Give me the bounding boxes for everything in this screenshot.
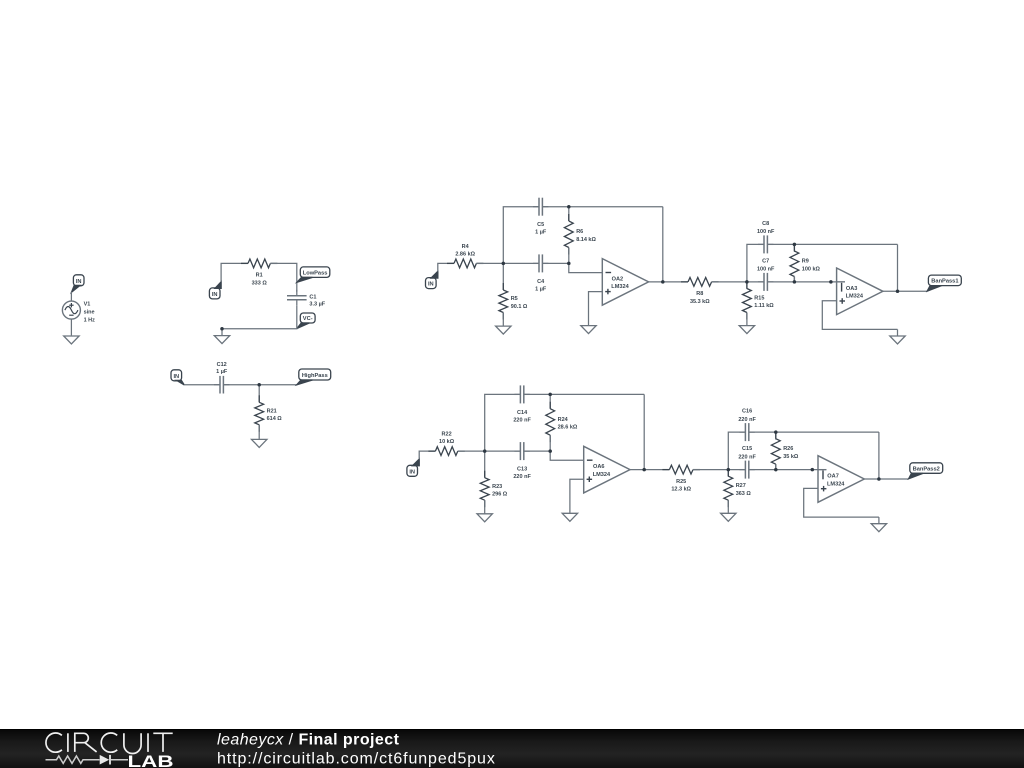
wire — [570, 479, 584, 512]
R6 label — [576, 229, 583, 235]
R8 value label — [690, 299, 710, 305]
wire — [542, 262, 568, 264]
resistor R4 — [447, 259, 483, 268]
wire — [897, 244, 899, 291]
wire — [822, 301, 897, 330]
svg-text:R21: R21 — [267, 408, 277, 414]
svg-text:LM324: LM324 — [611, 284, 629, 290]
svg-text:C12: C12 — [217, 362, 227, 368]
R9 value label — [802, 266, 821, 272]
wire — [484, 451, 486, 478]
svg-text:R23: R23 — [492, 484, 502, 490]
R1 value label — [252, 280, 268, 286]
C12 value label — [216, 369, 228, 375]
R15 value label — [754, 303, 774, 309]
net flag BanPass2 — [909, 463, 943, 479]
junction — [257, 383, 261, 387]
svg-text:OA7: OA7 — [827, 474, 839, 480]
OA2 part number label — [611, 284, 629, 290]
resistor R27 — [724, 469, 733, 507]
wire — [568, 248, 570, 264]
R23 label — [492, 484, 502, 490]
wire — [649, 281, 688, 283]
junction — [829, 280, 833, 284]
R4 value label — [455, 251, 475, 257]
net flag LowPass — [297, 267, 330, 283]
wire — [419, 451, 435, 459]
wire — [749, 469, 827, 471]
capacitor C16 — [739, 423, 754, 441]
C13 value label — [513, 474, 531, 480]
voltage source V1 — [62, 292, 80, 336]
capacitor C4 — [533, 254, 548, 272]
junction — [745, 280, 749, 284]
svg-text:IN: IN — [173, 374, 179, 380]
svg-text:R27: R27 — [736, 483, 746, 489]
ground — [581, 325, 596, 334]
resistor R23 — [480, 471, 489, 508]
svg-text:296 Ω: 296 Ω — [492, 492, 508, 498]
wire — [746, 313, 748, 326]
R6 value label — [576, 237, 596, 243]
wire — [767, 243, 897, 245]
C7 value label — [757, 267, 775, 273]
OA6 label — [593, 464, 605, 470]
svg-text:333 Ω: 333 Ω — [252, 280, 268, 286]
V1 type label — [84, 309, 95, 315]
ground — [739, 325, 754, 334]
svg-text:HighPass: HighPass — [302, 373, 328, 379]
wire — [549, 394, 551, 408]
svg-text:R26: R26 — [783, 446, 793, 452]
wire — [549, 435, 551, 451]
junction — [793, 280, 797, 284]
svg-text:C1: C1 — [309, 294, 316, 300]
wire — [775, 464, 777, 469]
svg-text:35.3 kΩ: 35.3 kΩ — [690, 299, 710, 305]
capacitor C13 — [514, 442, 529, 460]
R24 label — [558, 417, 569, 423]
C15 value label — [738, 454, 756, 460]
junction — [661, 280, 665, 284]
wire — [727, 470, 729, 477]
op-amp OA6 — [584, 446, 630, 493]
svg-text:R5: R5 — [511, 296, 518, 302]
wire — [749, 431, 879, 433]
svg-text:LM324: LM324 — [593, 472, 611, 478]
junction — [727, 468, 731, 472]
wire — [775, 432, 777, 440]
wire — [476, 262, 539, 264]
svg-text:R8: R8 — [696, 291, 703, 297]
junction — [877, 477, 881, 481]
junction — [896, 290, 900, 294]
svg-text:1 µF: 1 µF — [216, 369, 228, 375]
net flag IN — [209, 282, 221, 299]
wire — [258, 425, 260, 439]
R26 label — [783, 446, 793, 452]
junction — [793, 243, 797, 247]
capacitor C8 — [758, 235, 773, 253]
wire — [438, 263, 454, 271]
CircuitLab logo — [42, 729, 562, 768]
resistor R6 — [564, 214, 573, 255]
junction — [567, 262, 571, 266]
junction — [483, 449, 487, 453]
C13 label — [517, 467, 527, 473]
R25 value label — [671, 487, 691, 493]
wire — [221, 263, 248, 281]
op-amp OA3 — [837, 268, 883, 315]
svg-text:LowPass: LowPass — [303, 270, 328, 276]
svg-text:http://circuitlab.com/ct6funpe: http://circuitlab.com/ct6funped5pux — [217, 751, 496, 768]
svg-text:2.86 kΩ: 2.86 kΩ — [455, 251, 475, 257]
svg-text:R9: R9 — [802, 259, 809, 265]
junction — [220, 327, 224, 331]
ground — [214, 329, 229, 344]
net flag IN — [171, 370, 184, 385]
wire — [747, 244, 764, 282]
svg-text:R25: R25 — [676, 479, 686, 485]
C7 label — [762, 258, 769, 264]
C5 value label — [535, 230, 547, 236]
capacitor C7 — [758, 273, 773, 291]
ground — [721, 513, 736, 522]
svg-text:220 nF: 220 nF — [513, 417, 531, 423]
wire — [502, 313, 504, 326]
op-amp OA2 — [602, 259, 648, 306]
resistor R21 — [255, 395, 264, 432]
R9 label — [802, 259, 809, 265]
OA7 part number label — [827, 481, 845, 487]
V1 value label — [84, 317, 96, 323]
R22 label — [442, 432, 452, 438]
wire — [804, 488, 879, 517]
svg-text:614 Ω: 614 Ω — [267, 416, 283, 422]
R1 label — [256, 273, 263, 279]
junction — [548, 393, 552, 397]
wire — [568, 207, 570, 221]
svg-text:R4: R4 — [462, 244, 470, 250]
OA6 part number label — [593, 472, 611, 478]
C1 label — [309, 294, 316, 300]
R4 label — [462, 244, 470, 250]
wire — [458, 450, 521, 452]
svg-text:220 nF: 220 nF — [738, 417, 756, 423]
C8 label — [762, 221, 769, 227]
svg-text:C7: C7 — [762, 258, 769, 264]
wire — [643, 394, 645, 469]
capacitor C14 — [514, 385, 529, 403]
ground — [252, 439, 267, 448]
C8 value label — [757, 229, 775, 235]
svg-text:28.6 kΩ: 28.6 kΩ — [558, 425, 578, 431]
svg-text:8.14 kΩ: 8.14 kΩ — [576, 237, 596, 243]
wire — [878, 432, 880, 479]
wire — [746, 282, 748, 289]
wire — [864, 478, 908, 480]
wire — [712, 281, 764, 283]
C1 value label — [309, 301, 325, 307]
junction — [774, 468, 778, 472]
wire — [184, 384, 220, 386]
junction — [548, 449, 552, 453]
op-amp OA7 — [818, 456, 864, 503]
svg-text:35 kΩ: 35 kΩ — [783, 454, 799, 460]
svg-text:R24: R24 — [558, 417, 569, 423]
resistor R24 — [546, 402, 555, 443]
OA2 label — [612, 276, 624, 282]
svg-text:C5: C5 — [537, 222, 544, 228]
R15 label — [754, 295, 764, 301]
R24 value label — [558, 425, 578, 431]
ground — [64, 335, 79, 344]
junction — [502, 262, 506, 266]
wire — [727, 500, 729, 513]
svg-text:C8: C8 — [762, 221, 769, 227]
R22 value label — [439, 439, 455, 445]
svg-text:100 kΩ: 100 kΩ — [802, 266, 821, 272]
OA3 label — [846, 286, 858, 292]
C15 label — [742, 446, 752, 452]
wire — [542, 206, 662, 208]
R25 label — [676, 479, 686, 485]
C12 label — [217, 362, 227, 368]
svg-text:220 nF: 220 nF — [738, 454, 756, 460]
C5 label — [537, 222, 544, 228]
net flag IN — [71, 275, 84, 293]
wire — [630, 469, 669, 471]
svg-text:LAB: LAB — [128, 752, 174, 768]
svg-text:VC-: VC- — [303, 316, 313, 322]
wire — [550, 451, 584, 460]
junction — [811, 468, 815, 472]
resistor R26 — [771, 432, 780, 472]
wire — [767, 281, 845, 283]
wire — [793, 277, 795, 282]
svg-text:BanPass1: BanPass1 — [931, 279, 958, 285]
OA3 part number label — [846, 294, 864, 300]
svg-text:OA2: OA2 — [612, 276, 624, 282]
wire — [270, 263, 296, 291]
svg-text:363 Ω: 363 Ω — [736, 491, 752, 497]
resistor R15 — [743, 282, 752, 320]
svg-text:IN: IN — [428, 282, 434, 288]
wire — [662, 207, 664, 282]
C14 value label — [513, 417, 531, 423]
svg-text:IN: IN — [212, 292, 218, 298]
C16 label — [742, 409, 752, 415]
svg-text:C13: C13 — [517, 467, 527, 473]
R8 label — [696, 291, 703, 297]
svg-text:R15: R15 — [754, 295, 764, 301]
V1 label — [84, 302, 91, 308]
svg-text:220 nF: 220 nF — [513, 474, 531, 480]
svg-text:12.3 kΩ: 12.3 kΩ — [671, 487, 691, 493]
svg-text:leaheycx / Final project: leaheycx / Final project — [217, 732, 400, 749]
R5 value label — [511, 304, 528, 310]
capacitor C15 — [739, 461, 754, 479]
wire — [524, 450, 550, 452]
net flag HighPass — [297, 369, 331, 385]
capacitor C5 — [533, 198, 548, 216]
wire — [793, 244, 795, 252]
svg-text:100 nF: 100 nF — [757, 229, 775, 235]
ground — [871, 517, 886, 532]
svg-text:1 µF: 1 µF — [535, 286, 547, 292]
ground — [890, 329, 905, 344]
svg-text:R22: R22 — [442, 432, 452, 438]
resistor R8 — [681, 278, 719, 287]
wire — [728, 432, 745, 470]
R21 label — [267, 408, 277, 414]
wire — [883, 290, 927, 292]
R21 value label — [267, 416, 283, 422]
svg-text:OA6: OA6 — [593, 464, 605, 470]
svg-text:C14: C14 — [517, 410, 528, 416]
R27 value label — [736, 491, 752, 497]
wire — [502, 263, 504, 290]
junction — [642, 468, 646, 472]
C4 value label — [535, 286, 547, 292]
capacitor C1 — [287, 290, 307, 306]
wire — [485, 394, 521, 451]
net flag IN — [426, 271, 438, 288]
svg-text:sine: sine — [84, 309, 95, 315]
net flag VC- — [297, 313, 315, 329]
ground — [562, 513, 577, 522]
C14 label — [517, 410, 528, 416]
R5 label — [511, 296, 518, 302]
svg-text:C4: C4 — [537, 279, 545, 285]
wire — [484, 500, 486, 513]
svg-text:LM324: LM324 — [846, 294, 864, 300]
svg-text:90.1 Ω: 90.1 Ω — [511, 304, 528, 310]
svg-text:IN: IN — [409, 469, 415, 475]
svg-text:LM324: LM324 — [827, 481, 845, 487]
resistor R9 — [790, 244, 799, 284]
wire — [258, 385, 260, 403]
svg-text:R6: R6 — [576, 229, 583, 235]
ground — [496, 326, 511, 335]
svg-text:3.3 µF: 3.3 µF — [309, 301, 325, 307]
wire — [503, 207, 539, 264]
junction — [774, 430, 778, 434]
ground — [477, 513, 492, 522]
svg-text:10 kΩ: 10 kΩ — [439, 439, 455, 445]
svg-text:BanPass2: BanPass2 — [913, 466, 940, 472]
net flag BanPass1 — [927, 275, 961, 291]
wire — [223, 384, 297, 386]
resistor R25 — [662, 465, 700, 474]
svg-text:IN: IN — [76, 279, 82, 285]
wire — [589, 292, 603, 325]
junction — [567, 205, 571, 209]
R27 label — [736, 483, 746, 489]
svg-text:R1: R1 — [256, 273, 263, 279]
OA7 label — [827, 474, 839, 480]
wire — [569, 263, 603, 272]
svg-text:C15: C15 — [742, 446, 752, 452]
svg-text:OA3: OA3 — [846, 286, 858, 292]
resistor R5 — [499, 283, 508, 320]
capacitor C12 — [214, 376, 229, 394]
R23 value label — [492, 492, 508, 498]
wire — [524, 393, 644, 395]
svg-text:100 nF: 100 nF — [757, 267, 775, 273]
svg-text:C16: C16 — [742, 409, 752, 415]
resistor R22 — [428, 447, 464, 456]
C4 label — [537, 279, 545, 285]
R26 value label — [783, 454, 799, 460]
svg-text:1 µF: 1 µF — [535, 230, 547, 236]
svg-text:1 Hz: 1 Hz — [84, 317, 96, 323]
net flag IN — [407, 459, 419, 476]
wire — [693, 469, 745, 471]
resistor R1 — [241, 259, 277, 268]
svg-text:V1: V1 — [84, 302, 91, 308]
svg-text:1.11 kΩ: 1.11 kΩ — [754, 303, 774, 309]
footer bar — [0, 729, 1024, 768]
wire — [222, 306, 297, 329]
C16 value label — [738, 417, 756, 423]
